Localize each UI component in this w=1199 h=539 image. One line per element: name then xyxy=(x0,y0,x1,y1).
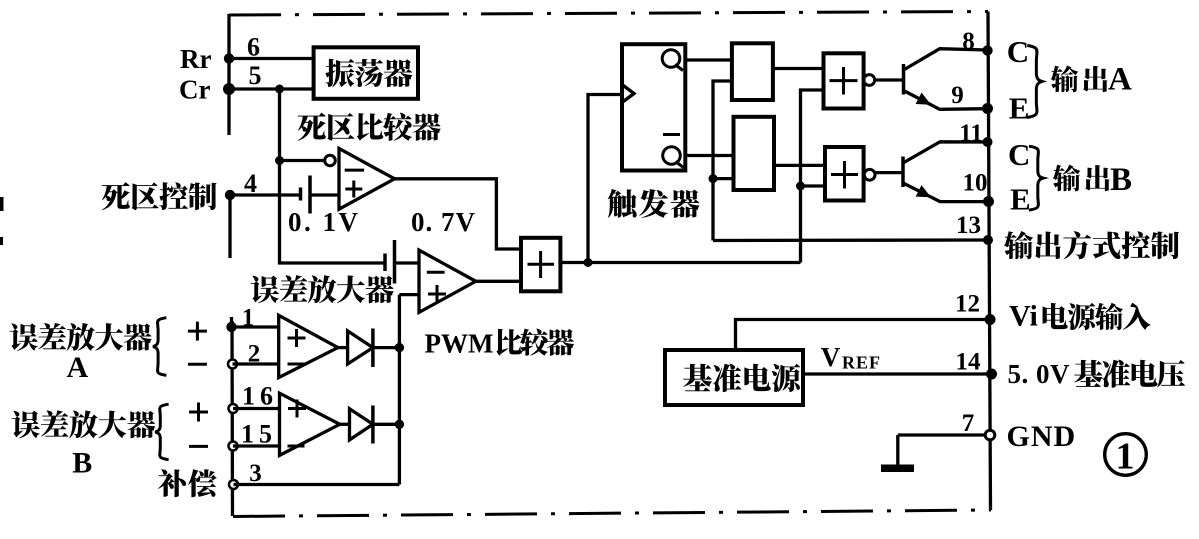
svg-text:9: 9 xyxy=(951,82,964,109)
transistor Q2 emitter to pin 10 xyxy=(903,183,989,202)
svg-text:16: 16 xyxy=(242,382,278,411)
svg-text:0. 1V: 0. 1V xyxy=(288,207,361,237)
wire NOR gate A to transistor Q1 base xyxy=(875,78,902,81)
figure number circled 1 xyxy=(1105,434,1147,476)
pin 13 terminal dot xyxy=(983,235,993,245)
svg-text:C: C xyxy=(1007,34,1029,69)
svg-text:V: V xyxy=(821,342,841,372)
wire flip-flop Q to AND gate A xyxy=(685,58,732,61)
junction node at flip-flop clock riser xyxy=(584,258,593,267)
svg-text:10: 10 xyxy=(963,170,988,197)
NOR gate A plus symbol xyxy=(830,79,858,82)
wire 0.7V battery to PWM comparator inverting input xyxy=(395,261,421,264)
wire summing gate output bus xyxy=(560,261,800,264)
pin 8 terminal dot xyxy=(982,45,992,55)
svg-text:8: 8 xyxy=(962,28,975,55)
wire riser to flip-flop clock input xyxy=(588,95,622,263)
plus sign error amp A input xyxy=(188,322,207,341)
error amplifier B triangle xyxy=(280,393,340,455)
flip-flop Qbar output letter with overbar xyxy=(663,133,680,136)
wire output-control riser to AND gate A input xyxy=(713,81,732,241)
pin 14 terminal dot xyxy=(986,369,997,380)
junction node diode D1 on bus xyxy=(395,343,404,352)
svg-text:14: 14 xyxy=(956,349,982,376)
wire AND gate A output to NOR gate A xyxy=(773,67,824,70)
wire diode D1 to feedback bus xyxy=(373,346,400,349)
svg-text:5: 5 xyxy=(249,61,262,90)
wire sawtooth to dead-band comparator inverting input xyxy=(280,159,326,162)
diode D2 triangle xyxy=(350,409,373,440)
brace error amp A inputs xyxy=(153,318,166,376)
dead-band comparator plus sign xyxy=(345,181,362,198)
wire reference supply output to pin 14 xyxy=(803,372,992,375)
label 输出A xyxy=(1051,65,1108,92)
wire AND gate B output to NOR gate B xyxy=(774,164,825,167)
wire pin 15 to error amp B inverting input xyxy=(233,444,280,447)
wire stub above pin 1 xyxy=(230,317,233,327)
pin Rr terminal dot xyxy=(224,53,234,63)
junction node diode D2 on bus xyxy=(395,420,404,429)
svg-text:PWM: PWM xyxy=(425,329,494,359)
junction node output-control to AND gate B xyxy=(709,174,718,183)
pin 3 terminal circle xyxy=(229,480,238,489)
pin 4 terminal dot xyxy=(225,190,235,200)
wire NOR gate B to transistor Q2 base xyxy=(875,171,902,174)
wire pin 6 (Rr) to oscillator xyxy=(229,57,314,60)
summing gate plus symbol xyxy=(528,263,555,266)
IC package boundary - left border segment upper xyxy=(227,14,230,135)
error amplifier A triangle xyxy=(279,315,338,377)
svg-text:E: E xyxy=(1010,182,1031,217)
wire branch to NOR gate B input xyxy=(801,184,826,187)
svg-text:13: 13 xyxy=(956,212,981,239)
dead-band comparator label 死区比较器 xyxy=(298,113,441,141)
plus sign error amp B input xyxy=(189,403,208,422)
flip-flop clock chevron xyxy=(622,85,634,103)
wire PWM signal riser to NOR gate A input xyxy=(801,90,824,263)
wire dead-band comparator output to summing gate xyxy=(395,179,522,249)
transistor Q2 emitter arrow xyxy=(916,185,934,203)
wire pin 4 to 0.1V battery xyxy=(230,193,301,196)
pin 2 terminal circle xyxy=(228,360,237,369)
wire error-amp bus to PWM comparator noninverting input xyxy=(399,293,420,296)
pin 1 terminal dot xyxy=(226,322,236,332)
IC package boundary - left border segment lower xyxy=(230,321,234,516)
AND gate A box xyxy=(732,43,773,100)
wire Cr sawtooth bus down to 0.7V battery xyxy=(280,89,386,263)
junction node on Cr wire xyxy=(275,85,284,94)
label 误差放大器 B xyxy=(12,410,156,438)
transistor Q1 base bar xyxy=(902,64,906,95)
pin 7 terminal circle xyxy=(985,430,995,440)
reference supply label 基准电源 xyxy=(683,364,800,392)
diode D1 triangle xyxy=(348,331,373,364)
wire PWM comparator output to summing gate xyxy=(476,280,521,283)
ink mark left margin lower xyxy=(0,237,3,245)
error amplifier section label 误差放大器 xyxy=(251,275,394,303)
svg-text:5. 0V: 5. 0V xyxy=(1008,359,1071,389)
summing gate U4 box xyxy=(521,238,560,291)
dead-band comparator U2 inverting input bubble xyxy=(325,155,336,166)
pin 11 terminal dot xyxy=(983,137,993,147)
NOR gate A output bubble xyxy=(864,75,875,86)
svg-text:C: C xyxy=(1008,137,1030,172)
transistor Q1 collector to pin 8 xyxy=(904,49,988,70)
oscillator label 振荡器 xyxy=(326,59,413,87)
flip-flop Q output letter xyxy=(662,50,680,68)
junction node sawtooth to dead-band comparator xyxy=(275,156,284,165)
pin 10 terminal dot xyxy=(983,196,994,207)
wire pin 5 (Cr) to oscillator xyxy=(229,87,314,90)
svg-text:A: A xyxy=(67,351,89,384)
battery 0.7V positive plate xyxy=(393,240,397,284)
svg-text:B: B xyxy=(1110,162,1132,198)
svg-text:E: E xyxy=(1009,91,1030,126)
svg-text:11: 11 xyxy=(959,120,983,147)
wire branch to AND gate B input xyxy=(713,177,734,180)
wire pin 1 to error amp A noninverting input xyxy=(232,325,279,328)
svg-text:REF: REF xyxy=(842,353,881,373)
error amp B plus sign xyxy=(288,400,306,418)
svg-text:Vi: Vi xyxy=(1009,300,1038,333)
brace error amp B inputs xyxy=(155,404,168,460)
junction node PWM riser to NOR gate B xyxy=(796,182,805,191)
flip-flop label 触发器 xyxy=(608,189,700,218)
wire ground drop xyxy=(896,435,899,466)
label 死区控制 dead-band control xyxy=(102,182,217,210)
ground symbol bar xyxy=(881,465,914,473)
transistor Q2 collector to pin 11 xyxy=(903,142,988,163)
battery 0.1V positive plate xyxy=(308,176,312,214)
error amp B minus sign xyxy=(288,445,305,448)
wire pin 3 compensation to feedback bus xyxy=(234,483,400,486)
NOR gate B box xyxy=(825,147,864,201)
wire 0.1V battery to comparator noninverting input xyxy=(310,193,340,196)
pin 12 terminal dot xyxy=(985,314,996,325)
svg-text:GND: GND xyxy=(1007,420,1077,453)
NOR gate B plus symbol xyxy=(831,173,858,176)
IC package boundary - right border xyxy=(988,12,991,511)
dead-band comparator U2 triangle xyxy=(339,148,395,209)
wire pin 16 to error amp B noninverting input xyxy=(233,407,280,410)
diode D2 cathode bar xyxy=(371,406,375,444)
wire error amp A to diode D1 xyxy=(338,346,348,349)
error amp A plus sign xyxy=(288,329,306,347)
svg-text:Cr: Cr xyxy=(179,75,210,105)
wire output-control net to pin 13 xyxy=(713,238,987,242)
wire reference supply to pin 12 Vi xyxy=(736,320,991,351)
svg-text:Rr: Rr xyxy=(180,44,211,74)
svg-text:15: 15 xyxy=(241,420,277,449)
svg-text:B: B xyxy=(72,447,92,480)
wire flip-flop Qbar to AND gate B xyxy=(685,154,733,157)
error amp A minus sign xyxy=(288,363,305,366)
battery 0.1V negative plate xyxy=(299,188,303,201)
brace output B xyxy=(1029,146,1043,210)
NOR gate B output bubble xyxy=(864,169,875,180)
wire feedback bus vertical xyxy=(398,295,401,485)
dead-band comparator minus sign xyxy=(345,169,364,172)
svg-text:6: 6 xyxy=(247,33,260,62)
label 输出B xyxy=(1053,165,1110,192)
flip-flop U5 box 触发器 xyxy=(622,44,685,170)
IC package boundary - bottom dash-dot border xyxy=(233,510,991,517)
PWM comparator U3 triangle xyxy=(419,250,476,312)
pin 15 terminal circle xyxy=(229,442,238,451)
diode D1 cathode bar xyxy=(371,329,375,368)
label 补偿 compensation xyxy=(158,469,217,497)
reference supply U6 box 基准电源 xyxy=(665,350,803,405)
minus sign error amp A input xyxy=(188,363,207,366)
svg-text:A: A xyxy=(1108,61,1132,97)
ink mark left margin upper xyxy=(0,197,4,211)
wire error amp B to diode D2 xyxy=(340,423,350,426)
pin 16 terminal circle xyxy=(229,404,238,413)
svg-text:0. 7V: 0. 7V xyxy=(411,207,476,237)
label 误差放大器 A xyxy=(10,323,152,351)
oscillator U1 box xyxy=(314,47,418,99)
PWM comparator minus sign xyxy=(427,271,445,274)
wire pin 2 to error amp A inverting input xyxy=(233,362,279,365)
brace output A xyxy=(1027,45,1042,117)
minus sign error amp B input xyxy=(189,445,208,448)
transistor Q1 emitter to pin 9 xyxy=(904,91,988,110)
transistor Q1 emitter arrow xyxy=(916,93,934,111)
svg-text:12: 12 xyxy=(955,291,980,318)
pin 9 terminal dot xyxy=(982,103,993,114)
IC package boundary - top dash-dot border xyxy=(229,12,988,16)
label 输出方式控制 output mode control xyxy=(1004,231,1179,259)
svg-text:7: 7 xyxy=(962,410,975,437)
wire pin 7 GND xyxy=(898,433,988,436)
NOR gate A box xyxy=(824,53,864,108)
battery 0.7V negative plate xyxy=(383,254,387,272)
AND gate B box xyxy=(734,117,775,190)
svg-text:1: 1 xyxy=(1116,436,1135,478)
wire diode D2 to feedback bus xyxy=(373,423,400,426)
PWM comparator plus sign xyxy=(428,285,446,303)
transistor Q2 base bar xyxy=(901,157,905,188)
pin Cr terminal dot xyxy=(223,83,235,95)
IC package boundary - left border segment mid xyxy=(228,195,231,258)
